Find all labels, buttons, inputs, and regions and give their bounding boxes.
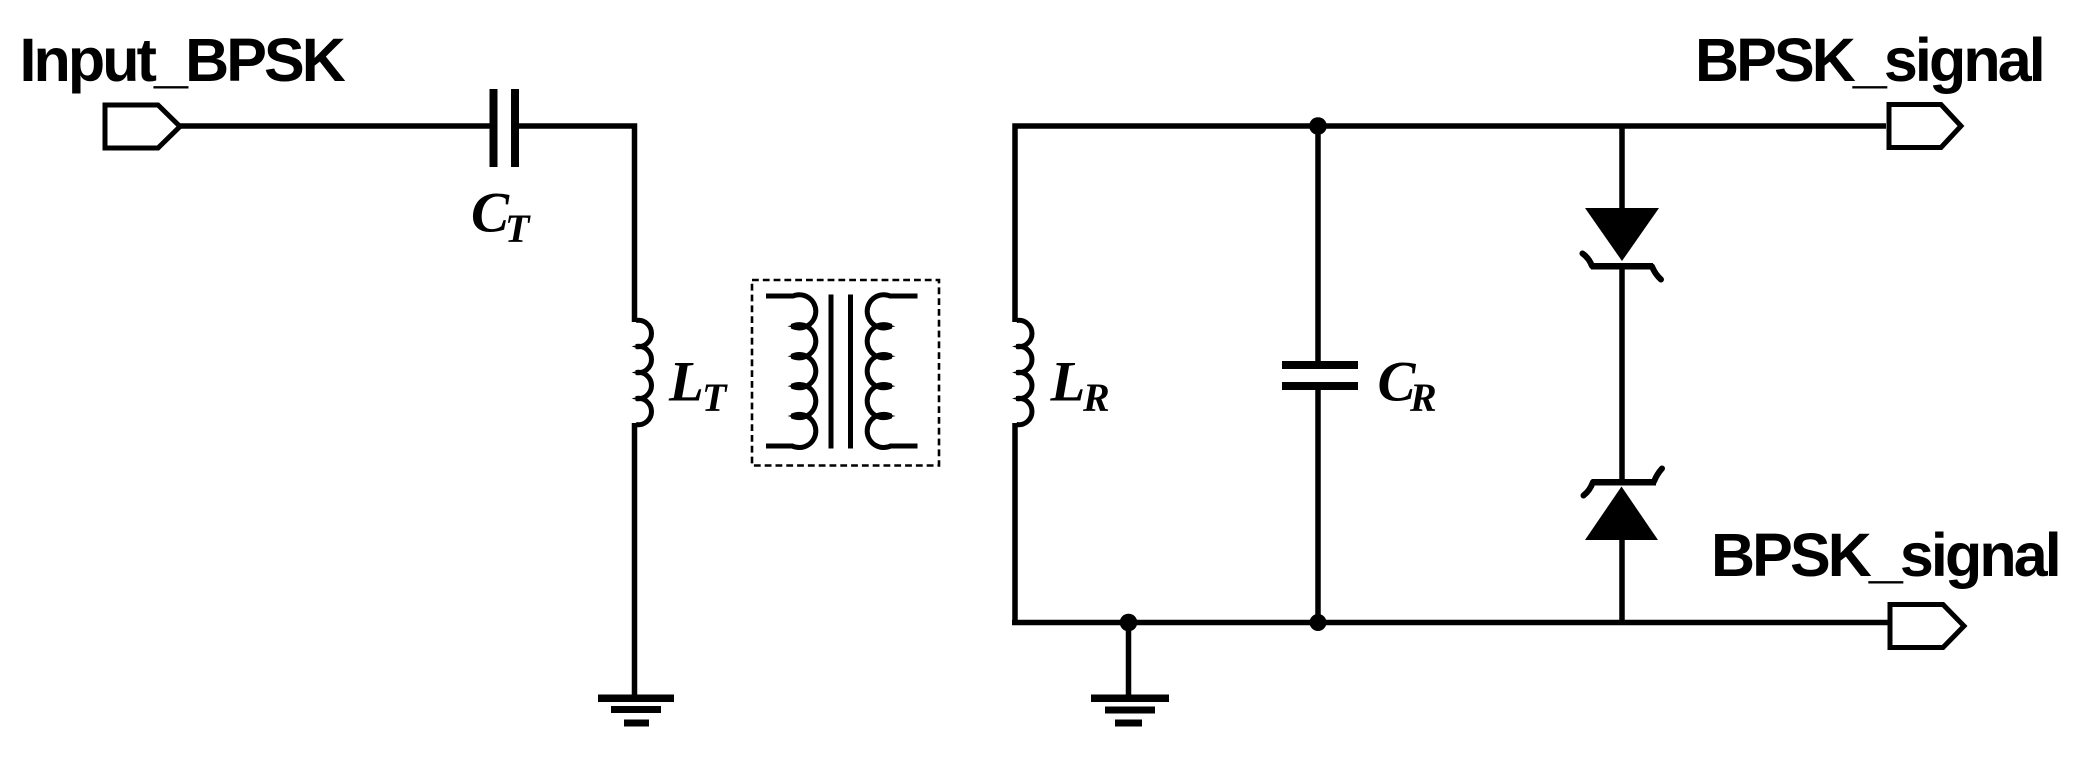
transformer T1 secondary winding: [867, 295, 917, 448]
wire L_R to bottom rail: [1012, 423, 1018, 625]
capacitor C_R: [1282, 361, 1358, 390]
svg-text:T: T: [505, 206, 531, 251]
junction node top of C_R: [1309, 117, 1327, 135]
wire zener D2 to bottom rail: [1619, 538, 1625, 623]
junction node ground stub: [1120, 614, 1138, 632]
svg-text:Input_BPSK: Input_BPSK: [20, 26, 346, 94]
wire right-circuit bottom rail: [1012, 620, 1890, 626]
label L_R: [1050, 351, 1110, 421]
svg-text:L: L: [1050, 351, 1086, 414]
ground (right): [1091, 695, 1169, 727]
wire ground stub (right): [1126, 623, 1132, 698]
wire between zeners: [1619, 266, 1625, 482]
transformer T1 dashed box: [752, 280, 939, 466]
wire right-circuit top rail: [1015, 126, 1886, 322]
svg-text:BPSK_signal: BPSK_signal: [1711, 521, 2059, 589]
wire C_R bottom stub: [1315, 390, 1321, 623]
label L_T: [668, 351, 728, 421]
svg-text:BPSK_signal: BPSK_signal: [1695, 26, 2043, 94]
wire C_R top stub: [1315, 126, 1321, 361]
transformer T1 primary winding: [766, 295, 816, 448]
wire top rail to zener D1: [1619, 126, 1625, 210]
capacitor C_T: [490, 89, 520, 167]
inductor L_R: [1012, 320, 1032, 424]
wire input to C_T: [180, 123, 490, 129]
port BPSK_signal (bottom): [1890, 605, 1964, 648]
ground (left): [598, 695, 674, 727]
zener diode D1 (cathode down): [1583, 208, 1662, 280]
label C_T: [471, 182, 531, 252]
svg-text:R: R: [1082, 375, 1110, 420]
transformer T1 core: [831, 295, 851, 449]
label C_R: [1378, 351, 1437, 421]
port BPSK_signal (top): [1889, 105, 1961, 148]
wire L_T to ground: [632, 423, 638, 698]
svg-text:L: L: [668, 351, 704, 414]
svg-text:R: R: [1409, 375, 1437, 420]
inductor L_T: [632, 320, 652, 424]
svg-text:T: T: [702, 375, 728, 420]
junction node bottom of C_R: [1310, 614, 1327, 631]
zener diode D2 (cathode up): [1584, 469, 1663, 541]
wire C_T to corner and down to L_T: [519, 126, 635, 322]
port Input_BPSK: [105, 105, 180, 148]
